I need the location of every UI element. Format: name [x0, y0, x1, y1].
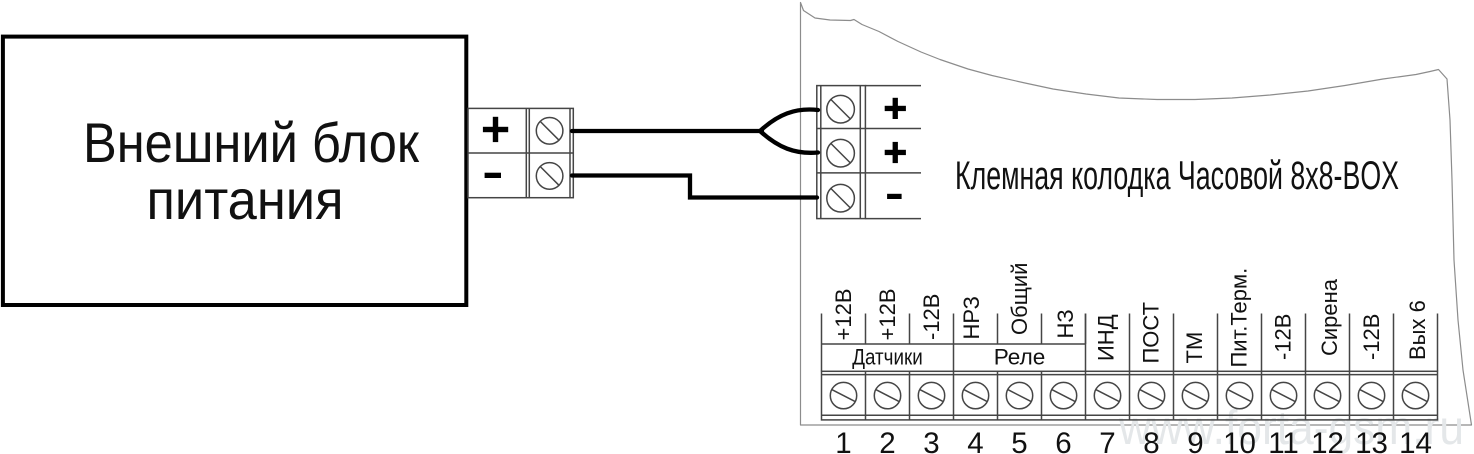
- svg-text:14: 14: [1399, 427, 1432, 454]
- svg-text:+12В: +12В: [875, 289, 900, 341]
- svg-text:1: 1: [835, 427, 851, 454]
- svg-text:Пит.Терм.: Пит.Терм.: [1227, 268, 1252, 368]
- svg-text:6: 6: [1055, 427, 1071, 454]
- svg-text:НЗ: НЗ: [1053, 309, 1078, 338]
- svg-text:12: 12: [1311, 427, 1344, 454]
- svg-text:питания: питания: [147, 168, 344, 231]
- svg-text:13: 13: [1355, 427, 1388, 454]
- svg-text:НРЗ: НРЗ: [959, 296, 984, 339]
- svg-text:ТМ: ТМ: [1182, 332, 1207, 364]
- svg-text:-12В: -12В: [1271, 314, 1296, 360]
- svg-text:4: 4: [967, 427, 983, 454]
- svg-text:Вых 6: Вых 6: [1405, 300, 1430, 360]
- svg-text:Датчики: Датчики: [852, 345, 923, 370]
- svg-text:ПОСТ: ПОСТ: [1139, 302, 1164, 364]
- svg-text:8: 8: [1143, 427, 1159, 454]
- svg-text:ИНД: ИНД: [1094, 314, 1119, 361]
- svg-text:-12В: -12В: [1359, 314, 1384, 360]
- svg-text:Внешний блок: Внешний блок: [83, 111, 419, 174]
- svg-text:Реле: Реле: [994, 345, 1046, 370]
- svg-text:Общий: Общий: [1007, 263, 1032, 335]
- svg-text:10: 10: [1223, 427, 1256, 454]
- svg-text:-12В: -12В: [919, 294, 944, 340]
- svg-text:11: 11: [1268, 427, 1299, 454]
- svg-text:9: 9: [1187, 427, 1203, 454]
- svg-text:7: 7: [1099, 427, 1115, 454]
- svg-text:3: 3: [923, 427, 939, 454]
- svg-text:2: 2: [879, 427, 895, 454]
- svg-text:+12В: +12В: [831, 289, 856, 341]
- svg-text:Клемная колодка Часовой 8х8-BO: Клемная колодка Часовой 8х8-BOX: [955, 154, 1399, 198]
- svg-text:Сирена: Сирена: [1317, 278, 1342, 356]
- svg-text:5: 5: [1011, 427, 1027, 454]
